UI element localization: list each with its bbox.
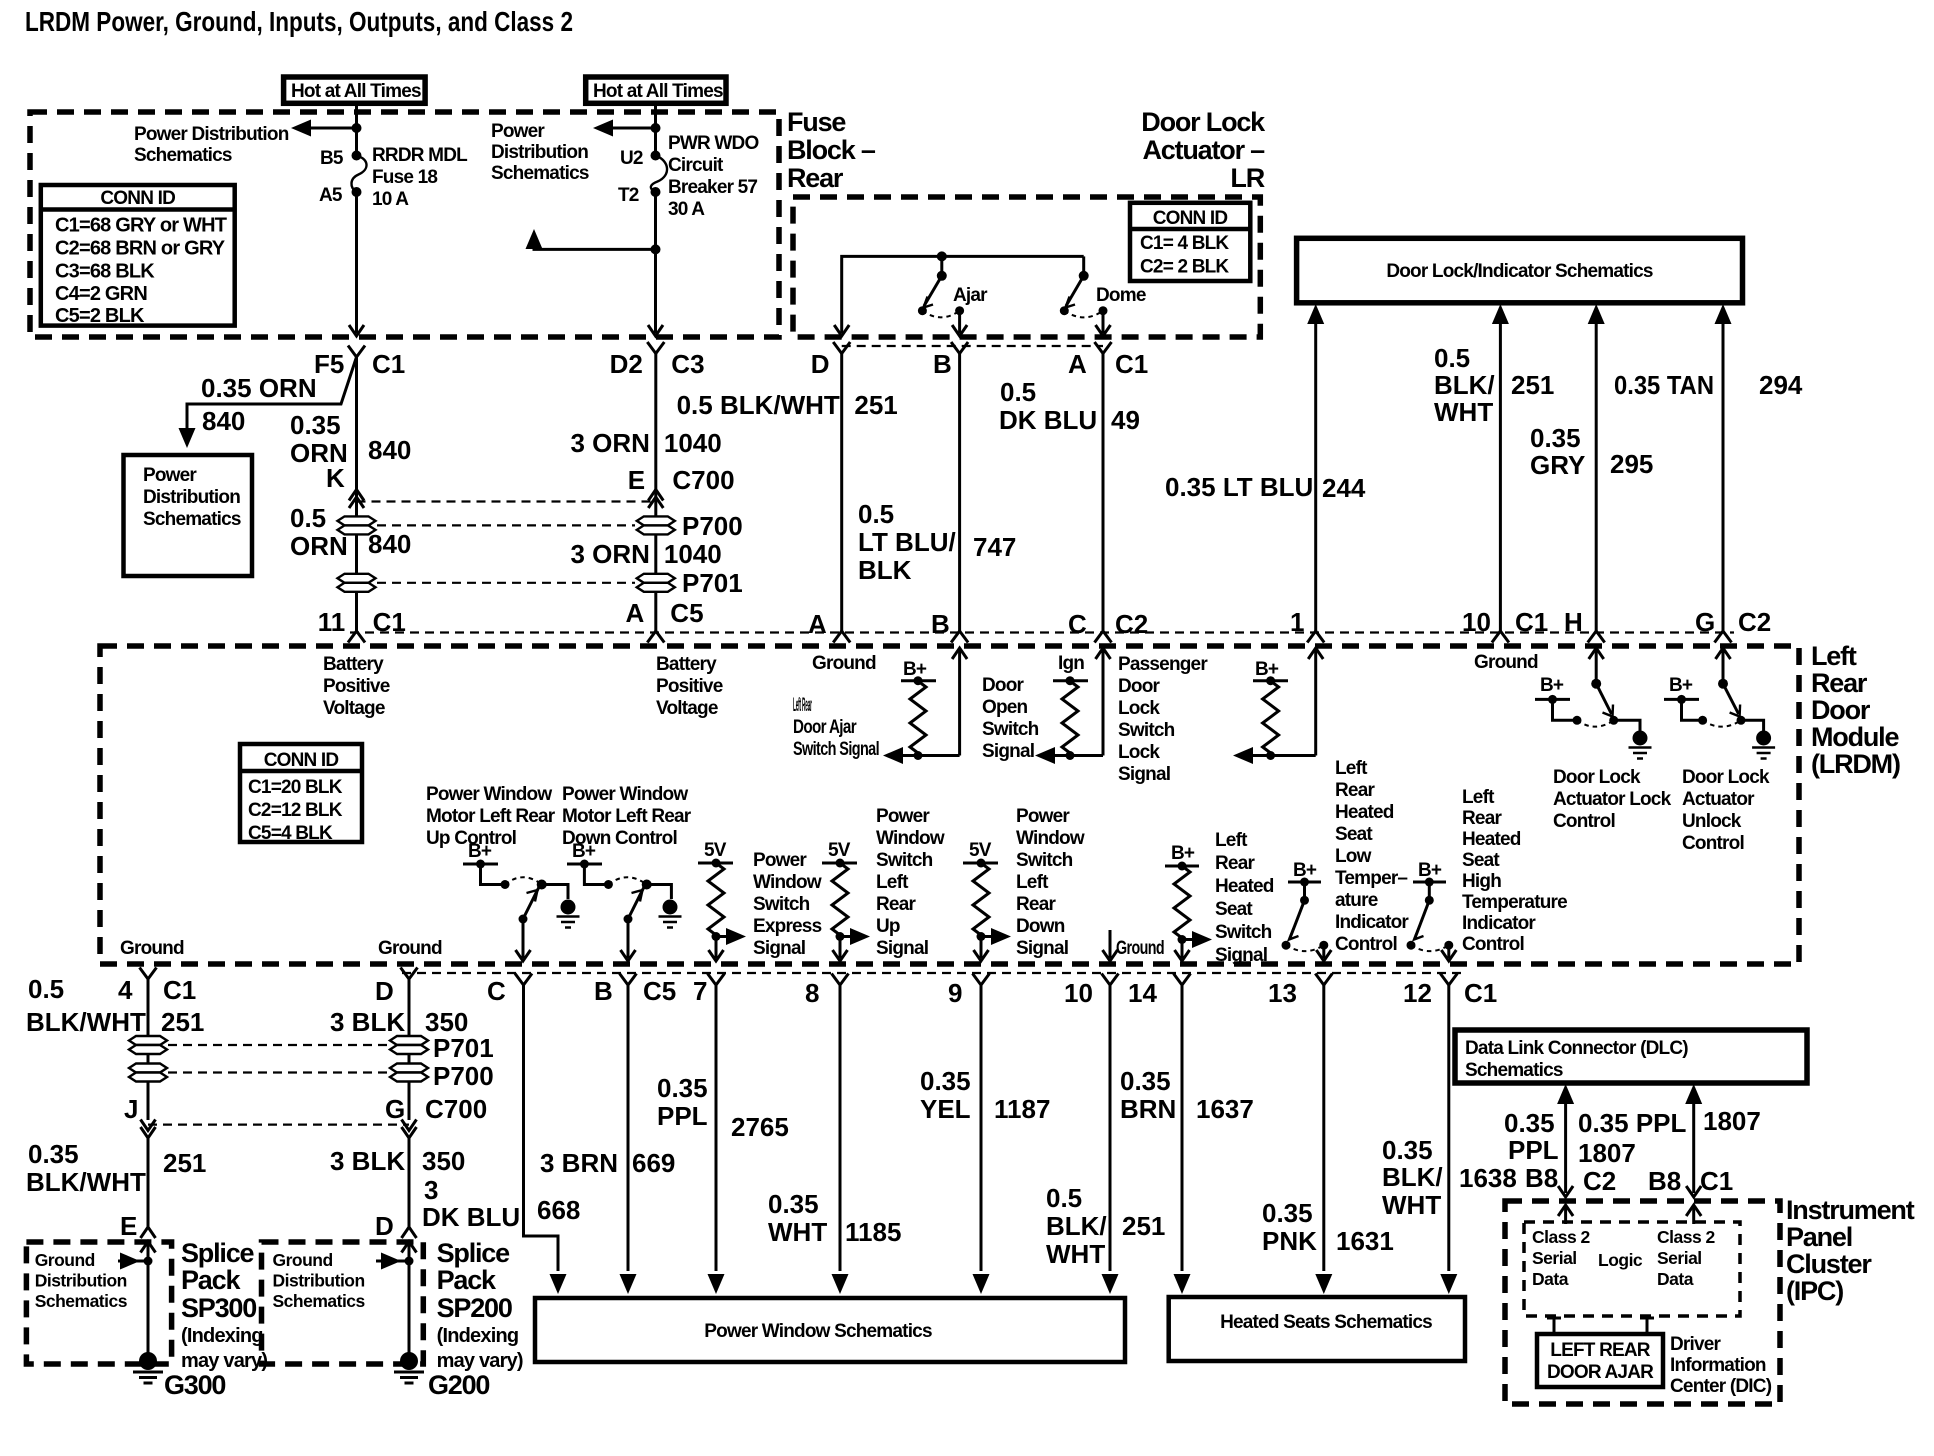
svg-text:D: D [375, 1211, 394, 1241]
svg-text:0.35BLK/WHT: 0.35BLK/WHT [1382, 1135, 1443, 1220]
Power Window Schematics box [535, 1298, 1125, 1362]
svg-text:C2=68 BRN or GRY: C2=68 BRN or GRY [55, 238, 226, 260]
svg-text:B: B [931, 609, 950, 639]
svg-text:CONN ID: CONN ID [100, 188, 175, 209]
down relay blade [628, 887, 644, 919]
wire A vertical (3 ORN 1040) [654, 354, 657, 632]
svg-text:PassengerDoorLockSwitchLockSig: PassengerDoorLockSwitchLockSignal [1118, 654, 1208, 785]
high temp switch contact (pin 12) [1444, 941, 1453, 950]
connector fork pin 12 below LRDM [1440, 974, 1457, 986]
connector fork pin B of actuator [951, 342, 968, 354]
connector fork pin D below LRDM [401, 968, 418, 980]
wire from Dome switch to LRDM pin C [1102, 354, 1105, 632]
connector fork pin D of actuator [833, 342, 850, 354]
svg-text:0.5: 0.5 [28, 974, 64, 1004]
Dome switch blade [1066, 276, 1084, 306]
svg-text:BatteryPositiveVoltage: BatteryPositiveVoltage [323, 654, 390, 719]
signal arrow (express signal) [716, 928, 746, 945]
node below express resistor [712, 932, 721, 941]
up relay blade arrowhead [527, 890, 538, 902]
svg-text:0.35 ORN: 0.35 ORN [201, 373, 317, 403]
junction node on fuse feed [352, 123, 362, 133]
connector fork pin A of actuator [1095, 342, 1112, 354]
svg-text:G300: G300 [164, 1370, 225, 1400]
ground (up control) [557, 900, 580, 928]
svg-text:P701: P701 [682, 568, 743, 598]
high temp switch pivot [1425, 882, 1434, 905]
node below up-signal resistor [836, 932, 845, 941]
connector fork F5/C1 [348, 346, 365, 358]
Ajar switch contact (open) [918, 306, 927, 315]
svg-text:0.35 TAN: 0.35 TAN [1614, 370, 1714, 400]
svg-text:DK BLU: DK BLU [999, 405, 1097, 435]
svg-text:251: 251 [1122, 1211, 1165, 1241]
svg-text:F5: F5 [314, 349, 344, 379]
svg-text:Schematics: Schematics [1465, 1060, 1563, 1081]
svg-text:668: 668 [537, 1195, 580, 1225]
svg-text:8: 8 [805, 978, 819, 1008]
svg-text:Ign: Ign [1058, 653, 1084, 674]
svg-text:LeftRearHeatedSeatHighTemperat: LeftRearHeatedSeatHighTemperatureIndicat… [1462, 787, 1567, 955]
svg-text:C5=4 BLK: C5=4 BLK [248, 823, 333, 844]
wire 1 to Door Lock/Indicator Schematics [1307, 304, 1324, 631]
Ajar switch blade [924, 276, 942, 306]
wire G/C2 to Door Lock/Indicator Schematics [1715, 304, 1732, 631]
B+ rail (up control) [463, 860, 498, 869]
lock switch blade [1596, 684, 1611, 714]
svg-text:295: 295 [1610, 449, 1653, 479]
up relay travel arc [505, 877, 542, 884]
svg-text:C5=2 BLK: C5=2 BLK [55, 305, 145, 327]
unlock switch blade [1723, 684, 1739, 714]
svg-text:1637: 1637 [1196, 1094, 1254, 1124]
wire 13 to Heated Seats Schematics [1315, 985, 1332, 1294]
wire B to Power Window Schematics [620, 985, 637, 1294]
svg-text:LeftRearHeatedSeatSwitchSignal: LeftRearHeatedSeatSwitchSignal [1215, 830, 1274, 966]
svg-text:P700: P700 [682, 511, 743, 541]
svg-text:BatteryPositiveVoltage: BatteryPositiveVoltage [656, 654, 723, 719]
svg-text:0.35 LT BLU: 0.35 LT BLU [1165, 472, 1313, 502]
svg-text:RRDR MDLFuse 1810 A: RRDR MDLFuse 1810 A [372, 145, 468, 210]
connector fork pin A at LRDM [647, 631, 664, 643]
stub from logic to DIC indicator (left) [1547, 1318, 1561, 1334]
LEFT REAR DOOR AJAR indicator box [1537, 1334, 1663, 1387]
wire B from Ajar switch to LRDM pin B [958, 354, 961, 632]
branch wire 0.35 ORN 840 to Power Distribution Schematics [179, 357, 357, 448]
stub from logic to DIC indicator (right) [1640, 1318, 1654, 1334]
wire D vertical to splice pack [408, 979, 411, 1228]
svg-text:B+: B+ [1669, 675, 1693, 696]
svg-text:A: A [1068, 349, 1087, 379]
Instrument Panel Cluster dashed enclosure [1505, 1201, 1780, 1404]
svg-text:1807: 1807 [1578, 1138, 1636, 1168]
in-line connector chevrons at K [349, 490, 364, 509]
ground (unlock control) [1752, 731, 1775, 759]
low temp switch travel arc [1286, 945, 1324, 951]
CONN ID table (fuse block) [41, 185, 235, 327]
connector fork pin 13 below LRDM [1315, 974, 1332, 986]
svg-text:1185: 1185 [845, 1217, 901, 1247]
unlock switch travel arc [1703, 720, 1741, 726]
svg-text:0.35ORN: 0.35ORN [290, 410, 348, 468]
wire pin B/C5 inside module [621, 919, 636, 961]
splice connector P701 (wire D) [390, 1036, 428, 1054]
svg-text:LeftRearHeatedSeatLowTemper–at: LeftRearHeatedSeatLowTemper–atureIndicat… [1335, 758, 1409, 955]
svg-text:C5: C5 [643, 976, 676, 1006]
connector fork D2/C3 [647, 342, 664, 354]
wire pin 8 inside module [833, 937, 848, 962]
arrow end of breaker wire at box edge [648, 325, 663, 336]
down relay pivot [642, 880, 652, 890]
B+ rail (door ajar pull-up) [901, 676, 936, 685]
svg-text:A: A [808, 609, 827, 639]
splice feed arrow (SP300) [118, 1253, 153, 1270]
feed wire to down relay contact [584, 864, 608, 885]
wire pin G inside module [1716, 648, 1731, 684]
svg-text:Power DistributionSchematics: Power DistributionSchematics [134, 124, 289, 166]
svg-text:251: 251 [161, 1007, 204, 1037]
B+ rail (heated seat switch) [1165, 862, 1199, 871]
fuse F18 terminal B5 [352, 151, 362, 161]
svg-text:C: C [1068, 609, 1087, 639]
low temp switch blade [1290, 900, 1305, 938]
svg-text:0.5ORN: 0.5ORN [290, 503, 348, 561]
resistor down signal [973, 863, 989, 935]
connector fork pin 4 below LRDM [140, 968, 157, 980]
svg-text:PowerWindowSwitchLeftRearUpSig: PowerWindowSwitchLeftRearUpSignal [876, 806, 945, 959]
svg-text:0.5LT BLU/BLK: 0.5LT BLU/BLK [858, 499, 956, 585]
wire pin C inside module [516, 919, 531, 961]
connector fork pin 7 below LRDM [708, 974, 725, 986]
wire from chevron to G200 [408, 1242, 411, 1354]
svg-text:5V: 5V [969, 840, 992, 861]
B+ rail (high temp indicator) [1413, 878, 1446, 887]
wire pin 14 inside module [1175, 940, 1190, 962]
resistor door ajar pull-up [910, 681, 926, 753]
svg-text:Ground: Ground [120, 938, 184, 959]
arrow end of wire D at actuator box edge [834, 325, 849, 336]
wire 4 vertical to splice pack [147, 979, 150, 1228]
svg-text:3 ORN: 3 ORN [571, 428, 650, 458]
svg-text:350: 350 [422, 1146, 465, 1176]
svg-text:K: K [326, 463, 345, 493]
wire 8 to Power Window Schematics [832, 985, 849, 1294]
signal arrow (door open switch signal) [1035, 747, 1103, 764]
svg-text:B+: B+ [468, 841, 492, 862]
svg-text:0.35PPL: 0.35PPL [657, 1073, 708, 1131]
wire pin 13 inside module [1316, 945, 1331, 961]
wire from unlock switch to ground [1741, 720, 1764, 731]
svg-text:669: 669 [632, 1148, 675, 1178]
signal arrow (door ajar switch signal) [883, 747, 960, 764]
svg-text:244: 244 [1322, 473, 1366, 503]
svg-text:B5: B5 [320, 148, 344, 169]
node below down-signal resistor [977, 932, 986, 941]
svg-text:49: 49 [1111, 405, 1140, 435]
svg-text:C700: C700 [425, 1094, 487, 1124]
svg-text:Ground: Ground [378, 938, 442, 959]
low temp switch blade arrowhead [1289, 929, 1299, 940]
svg-text:4: 4 [118, 975, 133, 1005]
connector fork pin C below LRDM [515, 974, 532, 986]
wire from Ajar contact to box edge [952, 311, 967, 336]
in-line connector chevrons at E [141, 1227, 156, 1253]
svg-text:B8: B8 [1525, 1163, 1558, 1193]
resistor up signal [832, 863, 848, 935]
ground G300 [133, 1352, 163, 1383]
svg-text:3 BLK: 3 BLK [330, 1007, 405, 1037]
svg-text:3 BRN: 3 BRN [540, 1148, 618, 1178]
B+ rail (unlock control) [1664, 695, 1699, 704]
wire to Power Distribution Schematics (second, left arrow) [593, 120, 656, 137]
svg-text:3DK BLU: 3DK BLU [422, 1175, 520, 1232]
wire 10 to Power Window Schematics [1102, 985, 1119, 1294]
lock switch pivot [1591, 679, 1601, 689]
connector fork pin B at LRDM [951, 631, 968, 643]
svg-text:(Indexingmay vary): (Indexingmay vary) [181, 1325, 267, 1372]
Heated Seats Schematics box [1169, 1297, 1465, 1361]
Dome switch contact (open) [1060, 306, 1069, 315]
connector fork pin 10 below LRDM [1102, 974, 1119, 986]
svg-text:D2: D2 [610, 349, 643, 379]
node below door open resistor [1066, 751, 1075, 760]
svg-text:Heated Seats Schematics: Heated Seats Schematics [1220, 1312, 1432, 1333]
wire from Dome contact to box edge [1096, 311, 1111, 336]
svg-text:C1=20 BLK: C1=20 BLK [248, 777, 343, 798]
svg-text:C2= 2 BLK: C2= 2 BLK [1140, 257, 1229, 278]
svg-text:Door Lock/Indicator Schematics: Door Lock/Indicator Schematics [1386, 261, 1653, 282]
svg-text:9: 9 [948, 978, 962, 1008]
Dome switch travel arc [1064, 311, 1103, 318]
unlock switch blade arrowhead [1730, 705, 1741, 717]
resistor express signal [708, 863, 724, 935]
fuse F18 terminal A5 [352, 187, 362, 197]
svg-text:840: 840 [368, 435, 411, 465]
svg-text:PowerDistributionSchematics: PowerDistributionSchematics [491, 121, 589, 184]
lock switch contact (B+) [1573, 716, 1582, 725]
circuit breaker 57 element [651, 156, 667, 193]
svg-text:P700: P700 [433, 1061, 494, 1091]
svg-text:(Indexingmay vary): (Indexingmay vary) [437, 1325, 523, 1372]
wire 10/C1 to Door Lock/Indicator Schematics [1492, 304, 1509, 631]
svg-text:LeftRearDoorModule(LRDM): LeftRearDoorModule(LRDM) [1811, 641, 1900, 779]
svg-text:C3: C3 [671, 349, 704, 379]
low temp switch contact (pin 13) [1319, 941, 1328, 950]
P701 dashed link (bottom) [168, 1044, 388, 1046]
power feed box "Hot at All Times" (left) [284, 77, 426, 103]
svg-text:Data Link Connector (DLC): Data Link Connector (DLC) [1465, 1038, 1688, 1059]
junction node for Ajar switch [937, 251, 947, 261]
svg-text:0.35BRN: 0.35BRN [1120, 1066, 1176, 1124]
svg-text:5V: 5V [704, 840, 727, 861]
Ajar switch blade arrowhead [924, 297, 934, 308]
Ground Distribution Schematics dashed box (left) [26, 1242, 171, 1364]
Fuse Block - Rear dashed enclosure [30, 112, 779, 337]
svg-text:10: 10 [1064, 978, 1093, 1008]
up relay common node [519, 915, 528, 924]
svg-text:U2: U2 [620, 148, 643, 169]
wire 11 vertical (0.5 ORN 840) [355, 357, 358, 631]
B+ rail (lock control) [1535, 695, 1570, 704]
svg-text:D: D [375, 976, 394, 1006]
svg-text:0.5: 0.5 [1000, 377, 1036, 407]
svg-text:Power Window Schematics: Power Window Schematics [704, 1321, 932, 1342]
node below passenger lock resistor [1266, 751, 1275, 760]
svg-text:0.35PPL: 0.35PPL [1504, 1108, 1559, 1165]
B+ rail (down control) [567, 860, 602, 869]
LRDM top connector dashed line [350, 631, 1734, 633]
svg-text:CONN ID: CONN ID [264, 750, 339, 771]
Ajar switch contact (to pin B) [955, 306, 964, 315]
connector fork pin C at LRDM [1095, 631, 1112, 643]
svg-text:7: 7 [693, 976, 707, 1006]
DLC wire (left, 0.35 PPL 1807) [1557, 1084, 1574, 1197]
svg-text:C1: C1 [1464, 978, 1497, 1008]
svg-text:Class 2SerialData: Class 2SerialData [1532, 1227, 1591, 1289]
CONN ID table (door lock actuator) [1130, 203, 1250, 281]
svg-text:0.5 BLK/WHT: 0.5 BLK/WHT [677, 390, 840, 420]
svg-text:PowerWindowSwitchLeftRearDownS: PowerWindowSwitchLeftRearDownSignal [1016, 806, 1085, 959]
svg-text:Door LockActuator LockControl: Door LockActuator LockControl [1553, 767, 1672, 832]
svg-text:C1: C1 [1115, 349, 1148, 379]
up relay blade [523, 887, 539, 919]
svg-text:294: 294 [1759, 370, 1803, 400]
svg-text:Ground: Ground [1116, 938, 1164, 959]
svg-text:D: D [811, 349, 830, 379]
Ajar switch pivot [937, 256, 947, 280]
splice connector P701 (wire 4) [129, 1036, 167, 1054]
feed wire to unlock switch contact [1682, 699, 1703, 720]
node below door ajar resistor [914, 751, 923, 760]
svg-text:0.35PNK: 0.35PNK [1262, 1198, 1317, 1256]
wire pin H inside module [1589, 648, 1604, 684]
in-line connector chevrons at E [648, 490, 663, 509]
svg-text:251: 251 [1511, 370, 1554, 400]
svg-text:P701: P701 [433, 1033, 494, 1063]
svg-text:B: B [933, 349, 952, 379]
svg-text:0.35GRY: 0.35GRY [1530, 423, 1585, 480]
svg-text:LEFT REAR: LEFT REAR [1550, 1340, 1650, 1361]
unlock switch pivot [1718, 679, 1728, 689]
high temp switch blade arrowhead [1414, 929, 1424, 940]
wire 12 to Heated Seats Schematics [1440, 985, 1457, 1294]
down relay travel arc [608, 877, 646, 884]
svg-text:C2: C2 [1738, 607, 1771, 637]
Ign rail (door open pull-up) [1053, 676, 1088, 685]
svg-text:DriverInformationCenter (DIC): DriverInformationCenter (DIC) [1670, 1334, 1772, 1397]
svg-text:PWR WDOCircuitBreaker 5730 A: PWR WDOCircuitBreaker 5730 A [668, 133, 758, 220]
svg-text:12: 12 [1403, 978, 1432, 1008]
svg-text:J: J [124, 1094, 138, 1124]
power feed box "Hot at All Times" (right) [586, 77, 726, 103]
ground G200 [394, 1352, 424, 1383]
wire from chevron to G300 [147, 1242, 150, 1354]
svg-text:Hot at All Times: Hot at All Times [291, 81, 421, 102]
svg-text:251: 251 [854, 390, 897, 420]
svg-text:C4=2 GRN: C4=2 GRN [55, 283, 147, 305]
Dome switch contact (to pin A) [1099, 306, 1108, 315]
wire pin 7 inside module [709, 937, 724, 962]
svg-text:1631: 1631 [1336, 1226, 1394, 1256]
svg-text:A: A [626, 598, 645, 628]
Data Link Connector (DLC) Schematics box [1455, 1030, 1807, 1083]
svg-text:B+: B+ [1255, 659, 1279, 680]
svg-text:B: B [594, 976, 613, 1006]
svg-text:1638: 1638 [1459, 1163, 1517, 1193]
svg-text:0.35: 0.35 [28, 1139, 79, 1169]
wire C to Power Window Schematics [524, 985, 567, 1294]
svg-text:C1: C1 [163, 975, 196, 1005]
down relay common node [624, 915, 633, 924]
svg-text:InstrumentPanelCluster(IPC): InstrumentPanelCluster(IPC) [1786, 1195, 1915, 1306]
unlock switch contact (B+) [1698, 716, 1707, 725]
B+ rail (low temp indicator) [1288, 878, 1321, 887]
splice connector P700 (wire D) [390, 1064, 428, 1082]
svg-text:251: 251 [163, 1148, 206, 1178]
svg-text:C1=68 GRY or WHT: C1=68 GRY or WHT [55, 215, 227, 237]
svg-text:E: E [120, 1211, 137, 1241]
splice connector P700 (wire 11) [338, 516, 376, 534]
svg-text:GroundDistributionSchematics: GroundDistributionSchematics [273, 1250, 366, 1311]
wire from down relay pivot to ground [647, 885, 672, 900]
Left Rear Door Module dashed enclosure [100, 646, 1799, 964]
svg-text:0.5BLK/WHT: 0.5BLK/WHT [1434, 343, 1495, 427]
resistor passenger lock pull-up [1263, 681, 1279, 753]
svg-text:0.35 PPL: 0.35 PPL [1578, 1108, 1687, 1138]
svg-text:Door LockActuatorUnlockControl: Door LockActuatorUnlockControl [1682, 767, 1770, 854]
high temp switch travel arc [1411, 945, 1449, 951]
svg-text:0.5BLK/WHT: 0.5BLK/WHT [1046, 1183, 1107, 1269]
wire 14 to Heated Seats Schematics [1174, 985, 1191, 1294]
junction node on breaker feed [651, 123, 661, 133]
svg-text:14: 14 [1128, 978, 1157, 1008]
wire from lock switch to ground [1614, 720, 1640, 731]
svg-text:Ground: Ground [1474, 652, 1538, 673]
svg-text:B8: B8 [1648, 1166, 1681, 1196]
connector fork pin B below LRDM [620, 974, 637, 986]
high temp switch blade [1415, 900, 1429, 938]
svg-text:B+: B+ [1171, 843, 1195, 864]
P700 dashed link (bottom) [168, 1071, 388, 1073]
svg-text:Ajar: Ajar [953, 285, 988, 306]
splice feed arrow (SP200) [376, 1253, 414, 1270]
arrow end of fuse wire at box edge [349, 325, 364, 336]
high temp switch contact (open) [1407, 941, 1416, 950]
Ground Distribution Schematics dashed box (middle) [262, 1242, 424, 1364]
low temp switch contact (open) [1282, 941, 1291, 950]
Ajar switch travel arc [922, 311, 959, 318]
svg-text:BLK/WHT: BLK/WHT [26, 1167, 146, 1197]
splice connector P701 (wire 11) [338, 574, 376, 592]
unlock switch contact (ground) [1737, 716, 1746, 725]
svg-text:11: 11 [318, 607, 346, 637]
svg-text:1187: 1187 [994, 1094, 1050, 1124]
svg-text:CONN ID: CONN ID [1153, 208, 1228, 229]
Dome switch pivot [1079, 256, 1089, 280]
splice connector P700 (wire 4) [129, 1064, 167, 1082]
svg-text:SplicePackSP200: SplicePackSP200 [437, 1238, 512, 1323]
5V rail (express) [698, 859, 733, 868]
B+ rail (passenger lock pull-up) [1253, 676, 1288, 685]
svg-text:3 BLK: 3 BLK [330, 1146, 405, 1176]
wire pin 9 inside module [974, 937, 989, 962]
svg-text:C1: C1 [1700, 1166, 1733, 1196]
lock switch contact (ground) [1609, 716, 1618, 725]
splice connector P700 (wire A) [637, 516, 675, 534]
DLC wire (right, 1807) [1685, 1084, 1702, 1197]
svg-text:DoorOpenSwitchSignal: DoorOpenSwitchSignal [982, 675, 1039, 762]
svg-text:PowerWindowSwitchExpressSignal: PowerWindowSwitchExpressSignal [753, 850, 822, 959]
